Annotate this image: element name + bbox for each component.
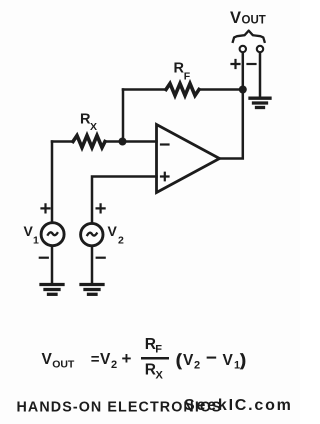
svg-text:V: V [42, 351, 53, 368]
op-amp U1 [157, 125, 220, 193]
wire: right terminal down to ground [259, 53, 262, 97]
svg-text:2: 2 [111, 359, 117, 371]
wire: feedback left vertical drop [122, 90, 125, 142]
wire: V1 vertical [51, 142, 54, 223]
label V2 [108, 223, 125, 246]
node: output junction [239, 86, 247, 94]
label - (V2 bottom polarity) [97, 257, 105, 259]
source V1 [41, 223, 64, 246]
label - (inverting input) [161, 143, 169, 145]
label RX [80, 112, 97, 134]
wire: V1 to ground [51, 246, 54, 284]
wire: op-amp output [220, 90, 243, 159]
wire: feedback left segment [123, 88, 166, 91]
label V1 [24, 223, 40, 246]
svg-text:2: 2 [118, 235, 124, 247]
label + (V2 polarity) [97, 204, 105, 212]
svg-text:V: V [108, 223, 118, 239]
ground (output terminal) [250, 98, 270, 107]
svg-text:(: ( [176, 352, 182, 370]
svg-text:1: 1 [33, 235, 39, 247]
wire: left terminal down to output node [242, 53, 245, 90]
label - (V1 bottom polarity) [40, 257, 48, 259]
svg-text:V: V [100, 351, 111, 368]
terminal + (left output terminal) [240, 46, 246, 52]
wire: non-inverting input from V2 [92, 177, 157, 223]
label - (output polarity) [248, 63, 256, 65]
svg-text:V: V [24, 223, 34, 239]
svg-text:F: F [155, 344, 162, 356]
formula VOUT = V2 + (RF/RX)(V2 - V1) [42, 336, 246, 382]
resistor RX [73, 136, 105, 148]
svg-text:OUT: OUT [52, 359, 75, 371]
svg-text:V: V [223, 352, 234, 369]
svg-text:+: + [122, 349, 132, 368]
svg-text:=: = [91, 351, 100, 368]
svg-text:2: 2 [194, 360, 200, 372]
svg-text:OUT: OUT [242, 15, 266, 27]
svg-text:): ) [240, 352, 246, 370]
svg-text:V: V [230, 9, 241, 27]
brace under VOUT [233, 31, 265, 42]
label + (output polarity) [232, 60, 240, 68]
svg-text:1: 1 [234, 360, 240, 372]
label RF [174, 61, 191, 83]
label + (non-inverting input) [161, 173, 169, 181]
resistor RF [166, 84, 199, 96]
svg-text:X: X [90, 121, 97, 133]
svg-text:−: − [206, 348, 217, 369]
wire: feedback right segment to output node [199, 88, 243, 91]
svg-text:V: V [183, 352, 194, 369]
label VOUT (top) [230, 9, 266, 27]
svg-text:X: X [156, 370, 164, 382]
wire: V1 to RX [52, 140, 73, 143]
terminal - (right output terminal) [257, 46, 263, 52]
svg-text:SeekIC.com: SeekIC.com [184, 397, 293, 414]
ground (V1) [41, 285, 63, 295]
svg-text:R: R [145, 362, 156, 379]
node: inverting input junction [119, 138, 127, 146]
wire: V2 to ground [91, 246, 94, 284]
ground (V2) [81, 285, 103, 295]
label + (V1 polarity) [42, 204, 50, 212]
wire: RX to inverting input [105, 140, 157, 143]
source V2 [81, 223, 103, 245]
